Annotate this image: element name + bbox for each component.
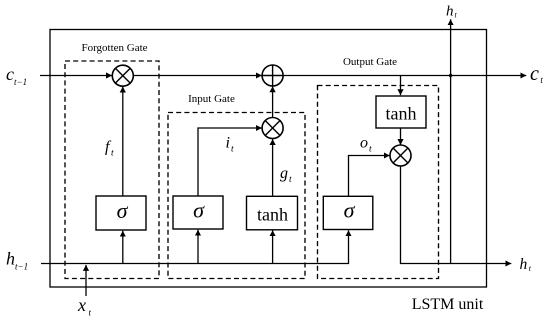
svg-text:it: it (226, 135, 234, 155)
svg-text:ht: ht (520, 256, 532, 273)
wire h line up into sigma F (122, 231, 124, 264)
sigma box forgotten gate (96, 196, 146, 230)
wire multiply I up to add (272, 86, 274, 117)
svg-text:Output Gate: Output Gate (343, 56, 397, 68)
wire sigma O elbow to multiply O (349, 156, 390, 197)
Output Gate dashed box (318, 86, 439, 279)
sigma box input gate (173, 196, 223, 229)
svg-text:Input Gate: Input Gate (188, 93, 235, 105)
tanh box output gate (376, 96, 426, 128)
add circle (cell update) (262, 65, 283, 86)
wire x_t input up to h line (85, 265, 87, 296)
svg-text:ct: ct (530, 63, 543, 85)
wire sigma I elbow to multiply I (198, 128, 262, 196)
multiply circle I (input gate) (262, 118, 283, 139)
svg-text:σ: σ (193, 198, 205, 223)
svg-text:gt: gt (280, 165, 292, 185)
svg-text:σ: σ (117, 198, 129, 223)
tanh box input gate (247, 196, 298, 230)
junction dot c line / h_t branch (449, 74, 452, 77)
wire multiply F to add (134, 75, 262, 77)
wire c line down into tanh O (400, 76, 402, 96)
multiply circle O (output gate) (390, 145, 411, 166)
wire multiply O down and right to h_t output (401, 166, 512, 264)
svg-text:σ: σ (344, 198, 356, 223)
svg-text:ht−1: ht−1 (6, 249, 28, 272)
wire c input to multiply F (40, 75, 112, 77)
svg-text:ht: ht (446, 4, 458, 20)
wire tanh O down to multiply O (400, 128, 402, 145)
sigma box output gate (323, 196, 373, 229)
Input Gate dashed box (168, 113, 305, 279)
wire sigma F up to multiply F (122, 87, 124, 197)
svg-text:LSTM unit: LSTM unit (412, 296, 484, 313)
svg-text:xt: xt (77, 295, 92, 318)
wire tanh I up to multiply I (272, 139, 274, 196)
svg-text:ct−1: ct−1 (6, 64, 27, 87)
multiply circle F (forgotten gate) (112, 65, 133, 86)
wire add to c output (283, 75, 526, 77)
wire h_t vertical branch up to top (450, 19, 452, 263)
wire h line up into sigma O (h line right end turns up) (41, 230, 349, 263)
wire h line up into tanh I (272, 230, 274, 263)
svg-text:tanh: tanh (257, 205, 288, 225)
LSTM unit outer box (50, 30, 487, 288)
svg-text:ft: ft (105, 139, 114, 159)
svg-text:Forgotten Gate: Forgotten Gate (81, 42, 147, 54)
svg-text:tanh: tanh (386, 104, 417, 124)
Forgotten Gate dashed box (65, 61, 159, 279)
wire h line up into sigma I (197, 230, 199, 264)
svg-text:ot: ot (360, 135, 372, 155)
